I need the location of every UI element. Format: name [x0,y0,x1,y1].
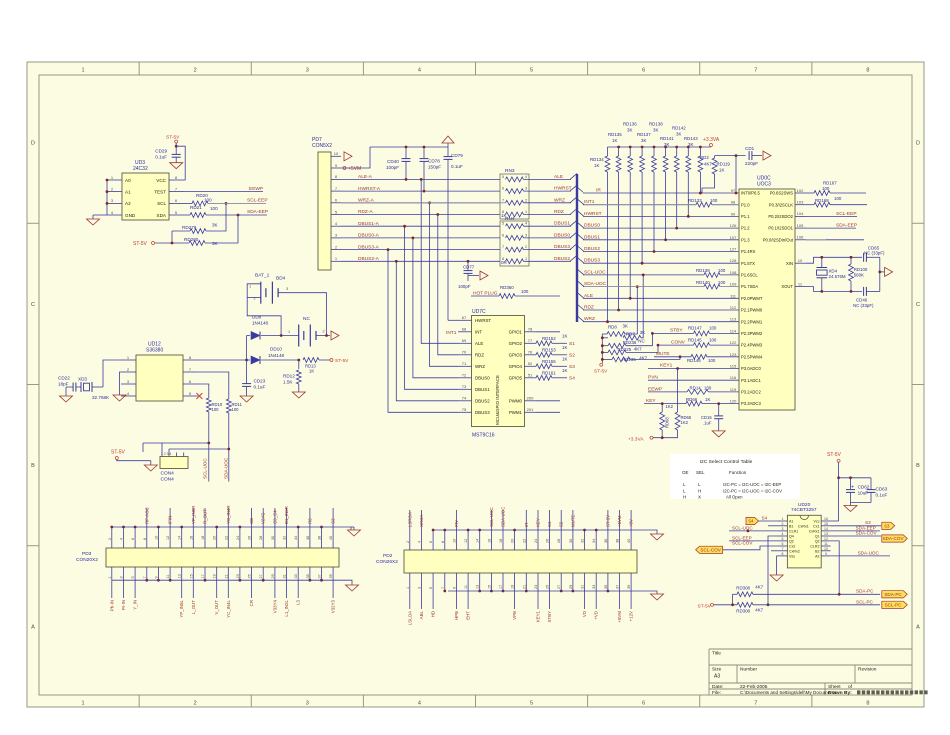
svg-text:Title: Title [712,651,721,657]
svg-text:Function: Function [729,470,747,475]
svg-text:100: 100 [708,358,716,363]
PD3 pin 39 [332,567,334,580]
svg-text:P1.7SDA: P1.7SDA [741,284,758,289]
wire net HWRST-A [341,190,500,192]
svg-text:6: 6 [502,233,504,237]
PD7 pin 7 [331,190,341,192]
svg-text:1: 1 [108,576,112,578]
UD20 pin2 stub [768,525,778,527]
resistor RD137 3K pull-up [641,146,644,149]
svg-text:115: 115 [730,364,737,369]
svg-text:23: 23 [534,585,538,589]
wire net DBUS2-A [341,260,500,262]
svg-text:100: 100 [822,186,830,191]
PD3 pin 21 [227,567,229,580]
svg-text:4: 4 [525,175,527,179]
svg-text:100pF: 100pF [386,165,399,170]
svg-text:SCL-UOC: SCL-UOC [732,525,753,530]
svg-text:31: 31 [283,574,287,578]
wire net DBUS2 into bus [524,260,572,262]
svg-text:100: 100 [709,325,717,330]
svg-text:ALE: ALE [475,341,483,346]
PD2 pin 6 [432,530,434,550]
svg-text:11: 11 [824,542,828,546]
svg-text:Vss: Vss [789,554,795,558]
svg-text:ST-5V: ST-5V [111,450,126,456]
PD3 pin 25 [251,567,253,580]
resistor RD141 3K pull-up [664,146,667,149]
svg-text:S2: S2 [559,521,564,527]
wire CON4 to SCL-UOC column [162,442,209,444]
svg-text:P1.5TX: P1.5TX [741,261,755,266]
svg-text:3K: 3K [641,138,646,143]
svg-text:4: 4 [120,538,124,540]
svg-text:3K: 3K [623,324,628,329]
svg-text:CD79: CD79 [451,153,463,158]
svg-text:B: B [31,463,35,469]
svg-text:100: 100 [718,280,726,285]
wire INT1 gray overlay [584,204,696,206]
svg-text:29: 29 [271,574,275,578]
PD3 pin 6 [134,527,136,548]
svg-text:INT0/P6.5: INT0/P6.5 [741,191,761,196]
UD20 pin7 stub [771,550,778,552]
PD3 pin 29 [274,567,276,580]
svg-text:4: 4 [418,68,421,74]
wire net ALE into bus [524,178,572,180]
svg-text:B2: B2 [815,549,819,553]
svg-text:102: 102 [797,188,804,193]
UD12 pin 5 [183,395,198,397]
svg-text:I2C Select Control Table: I2C Select Control Table [700,459,753,465]
svg-text:3: 3 [417,587,421,589]
resistor RD136 3K pull-up [629,146,632,149]
resistor RD143 3K pull-up [687,146,690,149]
RN3 element row 3 [506,200,524,205]
resistor RD11 100 vertical [226,399,231,413]
svg-text:16: 16 [189,536,193,540]
PD3 pin 14 [181,527,183,548]
svg-text:RD308: RD308 [736,586,750,591]
svg-text:3K: 3K [664,142,669,147]
wire net DBUS0 from bus to UOC3 [577,222,584,228]
svg-text:3: 3 [782,527,784,531]
svg-text:7: 7 [441,587,445,589]
PD2 pin 34 [595,530,597,550]
svg-text:5: 5 [502,175,504,179]
svg-text:2: 2 [108,538,112,540]
svg-text:RD279: RD279 [182,225,197,230]
svg-text:CxRx1: CxRx1 [809,529,820,533]
PD3 pin 2 [111,527,113,548]
svg-text:10: 10 [154,536,158,540]
svg-text:S3: S3 [884,524,890,529]
PD2 pin 18 [502,530,504,550]
svg-text:4K7: 4K7 [634,347,642,352]
PD2 pin 16 [490,530,492,550]
resistor RD12 1.5K [298,360,300,369]
svg-text:HWRST-A: HWRST-A [358,186,381,192]
svg-text:2: 2 [525,198,527,202]
svg-text:RD138: RD138 [649,122,663,127]
svg-text:+5VM: +5VM [617,515,622,527]
ground PD3 top rail [348,530,361,536]
svg-text:22: 22 [522,539,526,543]
wire net DBUS0-A [341,237,500,239]
svg-text:12: 12 [166,536,170,540]
svg-text:76: 76 [528,350,533,355]
svg-text:File:: File: [712,690,721,696]
svg-text:Number: Number [740,667,757,673]
svg-text:201: 201 [527,407,534,412]
svg-text:RD134: RD134 [590,157,604,162]
net IR label fix overlay [583,187,595,193]
svg-text:RD140: RD140 [696,280,710,285]
svg-text:8: 8 [502,257,504,261]
RN4 element row 1 [506,224,524,229]
svg-text:7: 7 [782,547,784,551]
PD3 pin 23 [239,567,241,580]
PD3 pin 28 [262,527,264,548]
resistor network RN3 [500,174,529,219]
svg-text:All Open: All Open [726,495,743,500]
svg-text:24: 24 [236,536,240,540]
svg-text:1.5K: 1.5K [283,380,293,385]
resistor RD10 100 vertical [198,384,209,398]
svg-text:GPIO5: GPIO5 [509,376,523,381]
PD3 pin 3 [123,567,125,580]
svg-text:SEL: SEL [696,470,705,475]
connector PD3 CON20X2 [106,548,339,567]
svg-text:37: 37 [616,585,620,589]
svg-text:0.1uF: 0.1uF [876,493,888,498]
svg-text:13: 13 [178,574,182,578]
wire ST-5V to pullups [172,230,190,232]
svg-text:20: 20 [511,539,515,543]
svg-text:11: 11 [464,585,468,589]
svg-text:116: 116 [730,375,737,380]
svg-text:72: 72 [462,373,467,378]
svg-text:19: 19 [213,574,217,578]
svg-text:3K: 3K [653,128,658,133]
svg-text:CD23: CD23 [254,379,266,384]
resistor RD2 4K7 pull-up [699,146,702,149]
PD2 pin 31 [584,573,586,591]
svg-text:100pF: 100pF [458,284,471,289]
wire net DBUS1-A [341,225,500,227]
svg-text:INT: INT [475,330,482,335]
svg-text:1N4148: 1N4148 [268,353,285,358]
svg-text:.1uF: .1uF [703,421,712,426]
PD3 pin 22 [227,527,229,548]
svg-text:1K: 1K [562,345,567,350]
wire net ALE-A [341,178,500,180]
PD2 pin 5 [432,573,434,591]
svg-text:ST-5V: ST-5V [166,134,180,140]
svg-text:DBUS1-A: DBUS1-A [358,221,380,227]
svg-text:RD135: RD135 [608,132,622,137]
svg-text:15: 15 [189,574,193,578]
svg-text:C:\Documents and Settings\dell: C:\Documents and Settings\dell\My Docume… [740,690,837,695]
wire UD12 pin7 to RD11 column [198,372,229,399]
svg-text:RD155: RD155 [542,359,556,364]
svg-text:EHT: EHT [466,611,471,620]
connector CON4 [160,457,188,469]
svg-text:YP_IN5R: YP_IN5R [191,506,196,524]
svg-text:RD142: RD142 [672,126,686,131]
ground under CD15 [712,431,725,437]
svg-text:1: 1 [525,257,527,261]
PD7 pin 5 [331,214,341,216]
svg-text:ALE-A: ALE-A [358,174,373,180]
svg-text:+VD: +VD [594,611,599,620]
PD2 pin 17 [502,573,504,591]
svg-text:MCU&GPIO INTERFACE: MCU&GPIO INTERFACE [495,375,500,425]
svg-text:30: 30 [271,536,275,540]
svg-text:6: 6 [131,538,135,540]
svg-text:CD15: CD15 [701,415,712,420]
svg-text:1: 1 [82,701,85,707]
svg-text:100: 100 [521,289,529,294]
svg-text:16: 16 [824,517,828,521]
svg-text:P2.5PWM4: P2.5PWM4 [741,354,763,359]
svg-text:CxRx1: CxRx1 [798,524,809,528]
wire XIN to ring top [806,257,862,263]
svg-text:40: 40 [627,539,631,543]
svg-text:69: 69 [462,338,467,343]
svg-text:18pF: 18pF [58,382,69,387]
PD3 pin 38 [321,527,323,548]
svg-text:R_OUT: R_OUT [203,509,208,524]
svg-text:25: 25 [248,574,252,578]
row tick marks left/right [27,222,39,224]
wire to CD1 [715,155,746,157]
svg-text:ST-5V: ST-5V [827,452,842,458]
wire column [396,261,458,401]
svg-text:127: 127 [730,247,737,252]
svg-text:5: 5 [530,68,533,74]
svg-text:RD145: RD145 [688,338,702,343]
IC UD20 74CBT3257 [787,515,821,568]
svg-text:IR: IR [524,523,529,527]
svg-text:HWRST: HWRST [554,186,572,192]
svg-text:SDA: SDA [157,213,167,218]
resistor RD20 100 on SCL [184,202,192,204]
IC UD12 S36380 [136,355,183,401]
svg-text:Pr-IN: Pr-IN [121,600,126,610]
PD3 pin 13 [181,567,183,580]
svg-text:KEY1: KEY1 [660,363,673,369]
svg-text:8: 8 [782,552,784,556]
svg-text:7: 7 [502,198,504,202]
svg-text:ST-5V: ST-5V [698,604,712,610]
connector PD2 CON26X2 [404,550,637,573]
svg-text:1: 1 [406,587,410,589]
svg-text:KEY: KEY [646,398,656,404]
svg-text:RD119: RD119 [717,162,731,167]
svg-text:P2.4PWM3: P2.4PWM3 [741,343,763,348]
PD3 pin 15 [192,567,194,580]
svg-text:2: 2 [194,701,197,707]
pin 12 wire down to SDA-PC [831,541,840,594]
svg-text:4K7: 4K7 [704,162,712,167]
svg-text:KEY: KEY [536,518,541,527]
ground under CD29 [170,163,183,169]
svg-text:Revision: Revision [858,667,877,673]
svg-text:73: 73 [462,384,467,389]
svg-text:7: 7 [502,245,504,249]
svg-text:78: 78 [528,327,533,332]
svg-text:3K: 3K [627,128,632,133]
svg-text:RD68: RD68 [665,417,670,428]
svg-text:100: 100 [232,407,240,412]
svg-text:P1.6SCL: P1.6SCL [741,273,758,278]
svg-text:14: 14 [476,539,480,543]
svg-text:RD168: RD168 [815,198,829,203]
wire column [388,250,458,413]
PD2 pin 1 [409,573,411,591]
resistor RD308 4K7 to SDA-PC [733,593,737,595]
svg-text:P1.3: P1.3 [741,237,750,242]
svg-text:RD66: RD66 [686,397,698,402]
svg-text:1: 1 [82,68,85,74]
wire net IR from bus to UOC3 [577,187,584,193]
svg-text:27: 27 [557,585,561,589]
wire XOUT to ring bottom [806,287,862,292]
PD2 pin 22 [525,530,527,550]
svg-text:10: 10 [334,151,339,156]
svg-text:VPB: VPB [512,611,517,620]
svg-text:DBUS0: DBUS0 [584,223,600,229]
wire left vertical battery branch [246,336,248,361]
title block [709,648,912,650]
svg-text:1N4148: 1N4148 [252,321,269,326]
PD3 top rail [112,526,351,528]
CON4 stub pins 3 4 [175,453,177,457]
PD3 pin 11 [169,567,171,580]
wire to decoupling caps [839,477,871,479]
svg-text:V33Y4: V33Y4 [272,599,277,613]
PD7 pin 1 [331,260,341,262]
PD3 pin 40 [332,527,334,548]
svg-text:1K2: 1K2 [666,404,674,409]
wire net DBUS0 into bus [524,237,572,239]
PD2 pin 15 [490,573,492,591]
svg-text:2: 2 [525,245,527,249]
svg-text:H: H [683,495,686,500]
svg-text:+8V: +8V [629,519,634,527]
svg-text:+3.3VA: +3.3VA [628,436,644,442]
resistor RD21 100 on SDA [184,214,190,216]
PD7 pin 6 [331,202,341,204]
resistor RD152 1K to S1 [536,341,552,346]
svg-text:BD4: BD4 [276,276,286,282]
svg-text:DBUS3: DBUS3 [554,244,570,250]
wire column [405,226,458,389]
svg-text:2: 2 [406,541,410,543]
svg-text:RD137: RD137 [637,132,651,137]
svg-text:3: 3 [306,68,309,74]
PD2 pin 29 [572,573,574,591]
ground at UD3 [87,219,100,225]
svg-text:MUTE: MUTE [656,351,670,357]
UD3 left pins ground bus [106,180,108,215]
wire VCC to ST-5V node [176,146,185,180]
svg-text:A: A [31,624,35,630]
resistor RD138 3K pull-up [653,146,656,149]
inner frame [39,75,912,695]
svg-text:RD139: RD139 [696,268,710,273]
svg-text:39: 39 [329,574,333,578]
net EEWP wire [184,191,263,193]
svg-text:VD: VD [582,611,587,617]
svg-text:GND: GND [125,213,136,218]
svg-text:RD2: RD2 [700,155,709,160]
svg-text:1K2: 1K2 [681,420,689,425]
svg-text:9: 9 [825,552,827,556]
svg-text:34: 34 [592,539,596,543]
svg-text:RD8: RD8 [608,325,617,330]
PD2 top rail [434,529,654,531]
svg-text:8: 8 [866,701,869,707]
ground below CON4 wire [150,461,152,465]
PD2 pin 35 [607,573,609,591]
svg-text:Pb-IN: Pb-IN [109,600,114,611]
svg-text:24: 24 [534,539,538,543]
svg-text:6: 6 [429,541,433,543]
svg-text:EEWP: EEWP [648,386,662,392]
PD2 pin 4 [420,530,422,550]
svg-text:A2: A2 [815,554,819,558]
svg-text:1K: 1K [719,168,724,173]
svg-text:DBUS0: DBUS0 [554,232,570,238]
resistor RD153 1K to S2 [536,352,552,357]
svg-text:1: 1 [782,517,784,521]
resistor RD161 1K to S4 [536,375,552,380]
svg-text:100: 100 [709,338,717,343]
resistor RD280 3K pullup [189,241,205,246]
svg-text:SCL-COV: SCL-COV [732,541,753,546]
svg-text:1K: 1K [309,369,314,374]
svg-text:S2: S2 [569,353,575,359]
PD7 pin 8 [331,178,341,180]
svg-text:6: 6 [642,701,645,707]
wire column [430,203,459,366]
resistor RD68 1K2 vertical from KEY row [661,402,664,405]
svg-text:P2.1PWM0: P2.1PWM0 [741,308,763,313]
IC UD3 24C32 [122,173,169,220]
svg-text:SCL-PC: SCL-PC [856,600,874,605]
svg-text:of: of [848,684,853,690]
svg-text:1K: 1K [562,334,567,339]
svg-text:16: 16 [487,539,491,543]
svg-text:H: H [698,489,701,494]
ground under CD23 [240,396,253,402]
PD2 pin 10 [455,530,457,550]
PD3 bottom rail [112,579,349,581]
svg-text:11: 11 [166,575,170,579]
svg-text:Q4: Q4 [789,535,794,539]
tag S4 into UD20 pin1 [746,517,759,524]
resistor RD100 560K [850,256,853,259]
svg-text:CD22: CD22 [58,376,70,381]
svg-text:6: 6 [502,187,504,191]
svg-text:36: 36 [604,539,608,543]
svg-text:ST-5V: ST-5V [594,368,608,374]
svg-text:SDA-UOC: SDA-UOC [224,457,229,479]
svg-text:Q1: Q1 [815,535,820,539]
svg-text:CD62: CD62 [858,484,870,489]
